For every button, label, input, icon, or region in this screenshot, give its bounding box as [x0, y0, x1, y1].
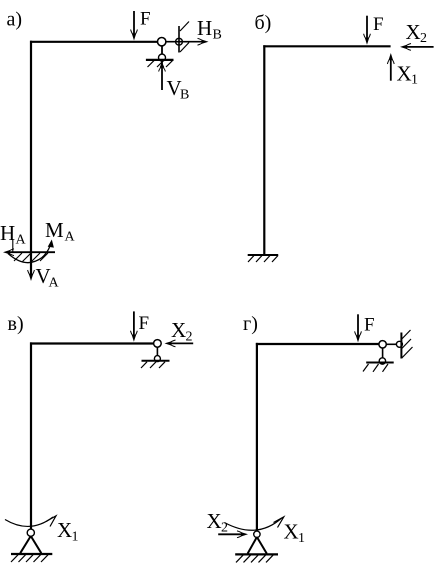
X2 arrow frame b: [400, 44, 434, 51]
frame g pin circle: [254, 531, 260, 537]
svg-text:X: X: [406, 20, 421, 44]
V_B up arrowhead: [159, 62, 166, 72]
V_B bar hatch 1: [148, 61, 155, 67]
svg-text:X: X: [284, 520, 299, 544]
frame v roller hatch 1: [141, 362, 147, 368]
svg-text:X: X: [171, 318, 186, 342]
frame v roller ground line: [142, 360, 170, 362]
svg-text:B: B: [180, 88, 189, 103]
V_B vertical link: [161, 46, 163, 90]
X2 arrow frame g: [218, 531, 248, 538]
svg-text:X: X: [397, 62, 412, 86]
roller wall vertical line: [178, 26, 180, 53]
frame g right link line: [386, 343, 401, 345]
frame v column: [30, 342, 32, 529]
frame g hinge circle: [379, 341, 386, 348]
frame b ground hatch 1: [248, 256, 254, 263]
frame g wall hatch 3: [402, 347, 413, 358]
frame g under-hinge hatch 1: [363, 364, 369, 372]
V_B bar hatch 2: [157, 61, 164, 67]
hinge B circle: [158, 38, 166, 46]
svg-text:M: M: [45, 218, 64, 242]
frame v hinge circle: [154, 340, 162, 348]
frame g horizontal member: [256, 343, 380, 345]
X2 arrow frame v: [165, 340, 194, 347]
frame g ground hatch 3: [251, 555, 258, 562]
frame g ground hatch 5: [266, 555, 273, 562]
svg-text:2: 2: [186, 330, 193, 345]
V_B support bar: [146, 59, 174, 61]
frame v triangle: [20, 536, 41, 553]
frame g wall hatch 1: [402, 330, 411, 339]
H_A leader line: [12, 239, 14, 252]
frame v roller circle: [154, 356, 160, 362]
frame v ground line: [11, 553, 52, 555]
svg-text:A: A: [49, 276, 60, 291]
frame v ground hatch 5: [41, 555, 48, 562]
svg-text:б): б): [255, 12, 272, 34]
frame b column: [263, 45, 265, 255]
frame g under-hinge roller circle: [379, 358, 385, 364]
svg-text:2: 2: [420, 31, 427, 46]
support A hatch 4: [40, 253, 48, 261]
svg-text:г): г): [243, 313, 258, 335]
wall hatch bottom: [180, 43, 189, 53]
frame v roller hatch 2: [150, 362, 156, 368]
frame g ground line: [235, 553, 278, 555]
frame g triangle: [248, 537, 267, 554]
frame b fixed support ground line: [248, 254, 279, 256]
force F arrow frame b: [364, 16, 371, 45]
frame v horizontal member: [30, 342, 154, 344]
H_B arrow: [166, 38, 209, 45]
svg-text:1: 1: [298, 531, 305, 546]
frame a column: [30, 41, 32, 252]
svg-text:в): в): [8, 313, 24, 335]
frame g wall line: [400, 333, 402, 359]
V_A arrow (column extension down): [28, 252, 35, 281]
X1 arc frame v: [5, 517, 53, 526]
frame g ground hatch 4: [259, 555, 266, 562]
frame v ground hatch 2: [19, 555, 26, 562]
support A hatch 2: [23, 253, 32, 262]
svg-text:H: H: [197, 16, 212, 40]
svg-text:X: X: [207, 509, 222, 533]
frame g under-hinge ground line: [366, 362, 394, 364]
X1 arc frame g: [224, 518, 281, 530]
svg-text:F: F: [364, 314, 375, 335]
support A hatch 3: [32, 253, 41, 262]
svg-text:A: A: [16, 233, 27, 248]
frame v roller link under hinge: [156, 347, 158, 357]
V_B bar hatch 3: [166, 61, 173, 67]
X1 arc arrowhead frame v: [46, 516, 56, 527]
svg-text:B: B: [213, 28, 222, 43]
frame a horizontal member: [30, 41, 158, 43]
wall hatch top: [180, 22, 189, 32]
svg-text:1: 1: [72, 530, 79, 545]
svg-text:1: 1: [411, 73, 418, 88]
svg-text:F: F: [140, 9, 151, 30]
frame v pin circle: [27, 529, 34, 536]
svg-text:A: A: [65, 230, 76, 245]
X1 arc arrowhead frame g: [274, 517, 284, 528]
frame b horizontal member: [263, 45, 390, 47]
frame g under-hinge hatch 3: [383, 364, 389, 372]
frame b ground hatch 4: [272, 256, 278, 263]
svg-text:а): а): [7, 9, 23, 31]
link roller circle right of hinge: [176, 38, 183, 45]
frame g under-hinge hatch 2: [373, 364, 379, 372]
frame v roller hatch 3: [159, 362, 165, 368]
svg-text:F: F: [373, 14, 384, 35]
frame v ground hatch 3: [26, 555, 33, 562]
frame g column: [256, 343, 258, 531]
M_A arrowhead: [48, 240, 54, 248]
frame v ground hatch 1: [11, 555, 18, 562]
V_B roller circle: [159, 54, 166, 61]
svg-text:X: X: [57, 518, 72, 542]
support A hatch 1: [14, 253, 22, 261]
frame g ground hatch 2: [244, 555, 251, 562]
frame g under-hinge link: [382, 348, 384, 360]
force F arrow frame v: [131, 311, 138, 341]
frame b ground hatch 2: [256, 256, 262, 263]
frame b ground hatch 3: [264, 256, 270, 263]
force F arrow frame g: [355, 314, 362, 342]
X1 arrow frame b: [387, 53, 394, 81]
frame g wall hatch 2: [402, 339, 411, 349]
svg-text:H: H: [0, 221, 15, 245]
support A: H_A arrow: [3, 249, 55, 256]
force F arrow frame a: [131, 11, 138, 41]
frame g ground hatch 1: [236, 555, 243, 562]
svg-text:F: F: [139, 313, 150, 334]
M_A arc: [8, 242, 51, 263]
frame v ground hatch 4: [34, 555, 41, 562]
frame g wall roller circle: [396, 341, 402, 347]
